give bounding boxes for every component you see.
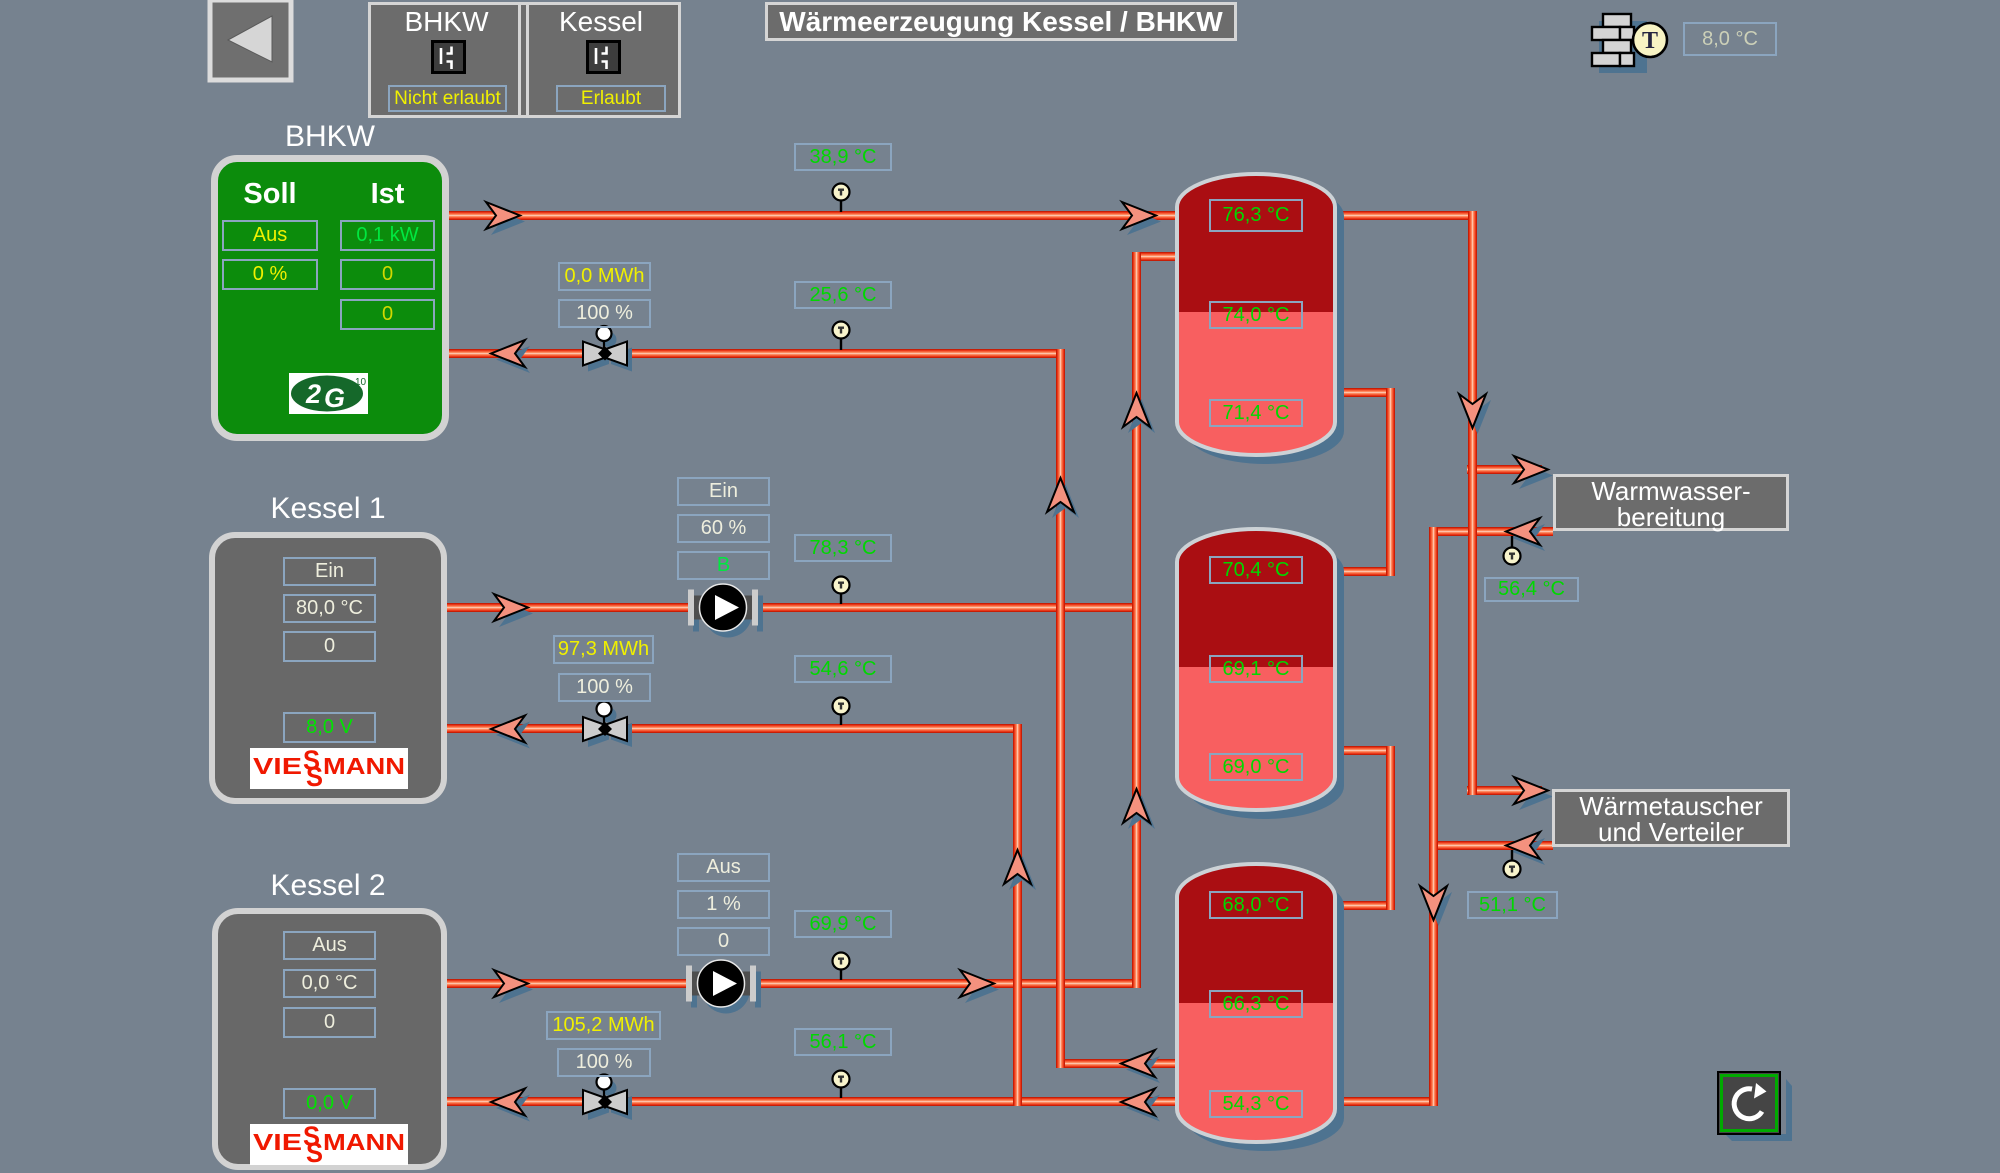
panel Kessel 1 box bbox=[209, 532, 447, 804]
label BHKW unit bbox=[211, 120, 449, 154]
display tank3 temp 68,0 bbox=[1209, 891, 1303, 919]
display pump1 B bbox=[677, 551, 770, 580]
flow arrow Kessel1 supply bbox=[494, 594, 533, 627]
sensor Warmwasser return bbox=[1504, 536, 1521, 565]
wire tank3 bottom right return entry bbox=[1327, 1097, 1438, 1106]
wire tank2-tank3 vertical link bbox=[1386, 746, 1395, 910]
display pump1 60 % bbox=[677, 514, 770, 543]
field BHKW Ist row2 bbox=[340, 259, 435, 290]
title bar bbox=[765, 2, 1237, 41]
flow arrow Kessel2 supply right bbox=[960, 970, 999, 1003]
wire tank1-tank2 link lower bbox=[1327, 567, 1395, 576]
display temp 38,9 bbox=[794, 143, 892, 171]
field Kessel2 row3 bbox=[283, 1007, 376, 1038]
display temp 54,6 bbox=[794, 655, 892, 683]
wire riser stub into tank1 bbox=[1132, 252, 1185, 261]
display tank3 temp 66,3 bbox=[1209, 990, 1303, 1018]
tank 3 storage bbox=[1177, 864, 1344, 1151]
flow arrow kessel riser upper bbox=[1123, 393, 1155, 433]
label Kessel 2 bbox=[209, 869, 447, 903]
flow arrow Warmwasser return left bbox=[1506, 518, 1545, 551]
wire tank1 bottom to tank2 top upper bbox=[1327, 388, 1395, 397]
field BHKW Ist row3 bbox=[340, 299, 435, 330]
flow arrow Kessel1 return bbox=[491, 716, 530, 749]
field Kessel1 setpoint bbox=[283, 594, 376, 623]
wire tank1 outlet to consumers bbox=[1327, 211, 1477, 220]
wire Warmwasser supply stub bbox=[1467, 465, 1542, 474]
wire Kessel2 supply pipe bbox=[447, 979, 1141, 988]
flow arrow to Waermetauscher box bbox=[1514, 777, 1553, 810]
sensor BHKW supply bbox=[833, 184, 850, 213]
wire Waermetauscher return bbox=[1429, 841, 1553, 850]
flow arrow BHKW return bbox=[491, 340, 530, 373]
display pump2 mode Aus bbox=[677, 853, 770, 882]
wire tank1-tank2 vertical link bbox=[1386, 388, 1395, 576]
svg-text:VIE: VIE bbox=[253, 1129, 302, 1155]
flow arrow BHKW return riser up bbox=[1047, 478, 1079, 518]
flow arrow Kessel1 return riser up bbox=[1004, 850, 1036, 890]
field Kessel2 voltage bbox=[283, 1088, 376, 1119]
display Kessel2 valve 100 % bbox=[557, 1048, 651, 1077]
svg-text:S: S bbox=[306, 761, 323, 789]
svg-text:10: 10 bbox=[355, 377, 367, 388]
flow arrow Kessel2 supply left bbox=[494, 970, 533, 1003]
sensor BHKW return bbox=[833, 322, 850, 351]
valve BHKW return bbox=[583, 326, 632, 372]
sensor Waermetauscher return bbox=[1504, 850, 1521, 878]
display pump2 0 bbox=[677, 927, 770, 956]
svg-text:T: T bbox=[1642, 28, 1658, 54]
wire BHKW return pipe horizontal bbox=[449, 349, 1065, 358]
logo VIESSMANN Kessel2 bbox=[250, 1124, 408, 1165]
valve Kessel1 return bbox=[583, 702, 632, 748]
display tank3 temp 54,3 bbox=[1209, 1090, 1303, 1118]
valve Kessel2 return bbox=[583, 1075, 632, 1121]
display BHKW meter 0,0 MWh bbox=[558, 262, 651, 291]
display temp 51,1 bbox=[1467, 891, 1558, 919]
back button bbox=[210, 0, 291, 80]
display temp 69,9 bbox=[794, 910, 892, 938]
icon BHKW switch bbox=[431, 40, 466, 79]
wire consumer return drop vertical bbox=[1429, 527, 1438, 1106]
tank 2 storage bbox=[1177, 529, 1344, 819]
svg-text:MANN: MANN bbox=[323, 1129, 405, 1155]
icon Kessel switch bbox=[586, 40, 621, 79]
svg-text:G: G bbox=[324, 383, 345, 413]
wire kessel riser to tank1 vertical bbox=[1132, 252, 1141, 988]
wire tank2 bottom link upper bbox=[1327, 746, 1395, 755]
svg-text:S: S bbox=[306, 1137, 323, 1165]
field Kessel2 setpoint bbox=[283, 969, 376, 998]
wire Kessel1 return riser vertical bbox=[1013, 724, 1022, 1106]
flow arrow BHKW supply left bbox=[486, 202, 525, 235]
panel Warmwasserbereitung bbox=[1553, 474, 1789, 531]
display tank2 temp 69,0 bbox=[1209, 753, 1303, 781]
pump Kessel2 supply bbox=[686, 960, 761, 1014]
display outdoor temperature bbox=[1683, 22, 1777, 56]
logo 2G bbox=[289, 373, 368, 414]
logo VIESSMANN Kessel1 bbox=[250, 748, 408, 789]
wire Kessel2 return pipe horizontal bbox=[447, 1097, 1185, 1106]
wire BHKW return outlet from tank3 bbox=[1056, 1059, 1185, 1068]
flow arrow consumer supply down bbox=[1459, 394, 1491, 434]
svg-text:MANN: MANN bbox=[323, 753, 405, 779]
display temp 25,6 bbox=[794, 281, 892, 309]
field Kessel2 mode bbox=[283, 931, 376, 960]
display tank1 temp 71,4 bbox=[1209, 399, 1303, 427]
pump Kessel1 supply bbox=[688, 584, 763, 638]
panel BHKW unit green box bbox=[211, 155, 449, 441]
field Kessel1 voltage bbox=[283, 712, 376, 743]
sensor Kessel1 return bbox=[833, 698, 850, 726]
tank 1 storage bbox=[1177, 174, 1344, 464]
flow arrow Waermetauscher return left bbox=[1506, 832, 1545, 865]
wire consumer supply drop vertical bbox=[1468, 211, 1477, 795]
flow arrow Kessel2 return bbox=[491, 1089, 530, 1122]
svg-text:2: 2 bbox=[305, 379, 321, 409]
icon outdoor wall bricks bbox=[1592, 14, 1647, 73]
status field BHKW Nicht erlaubt bbox=[388, 85, 507, 112]
label Kessel button title bbox=[526, 6, 676, 38]
display BHKW valve 100 % bbox=[558, 299, 651, 328]
sensor Kessel2 supply bbox=[833, 953, 850, 981]
display tank2 temp 70,4 bbox=[1209, 556, 1303, 584]
sensor Kessel1 supply bbox=[833, 577, 850, 605]
label Soll bbox=[222, 178, 318, 211]
label Kessel 1 bbox=[209, 492, 447, 526]
wire Kessel1 supply pipe bbox=[447, 603, 1141, 612]
display tank1 temp 76,3 bbox=[1209, 199, 1303, 232]
flow arrow to Warmwasser box bbox=[1514, 456, 1553, 489]
field BHKW Soll mode bbox=[222, 220, 318, 251]
panel Waermetauscher und Verteiler bbox=[1552, 789, 1790, 847]
display temp 56,4 bbox=[1484, 577, 1579, 602]
wire Warmwasser return bbox=[1429, 527, 1553, 536]
display Kessel1 meter 97,3 MWh bbox=[553, 635, 654, 664]
panel mode buttons BHKW/Kessel group bbox=[368, 2, 681, 118]
field BHKW Soll percent bbox=[222, 259, 318, 290]
svg-text:VIE: VIE bbox=[253, 753, 302, 779]
status field Kessel Erlaubt bbox=[556, 85, 666, 112]
flow arrow tank3 outlet lower bbox=[1121, 1089, 1160, 1122]
flow arrow BHKW supply at tank1 bbox=[1122, 202, 1161, 235]
wire Kessel1 return pipe horizontal bbox=[447, 724, 1022, 733]
label Ist bbox=[340, 178, 435, 211]
display temp 78,3 bbox=[794, 534, 892, 562]
panel Kessel 2 box bbox=[212, 908, 447, 1170]
wire BHKW return riser vertical bbox=[1056, 349, 1065, 1068]
display Kessel1 valve 100 % bbox=[558, 673, 651, 702]
field BHKW Ist power bbox=[340, 220, 435, 251]
wire Waermetauscher supply stub bbox=[1467, 786, 1542, 795]
label BHKW button title bbox=[372, 6, 521, 38]
wire BHKW supply pipe bbox=[449, 211, 1185, 220]
flow arrow kessel riser lower bbox=[1123, 789, 1155, 829]
button refresh bbox=[1718, 1072, 1792, 1141]
display Kessel2 meter 105,2 MWh bbox=[546, 1011, 661, 1040]
display pump2 1 % bbox=[677, 890, 770, 919]
display tank1 temp 74,0 bbox=[1209, 301, 1303, 329]
display temp 56,1 bbox=[794, 1028, 892, 1056]
display tank2 temp 69,1 bbox=[1209, 655, 1303, 683]
field Kessel1 mode bbox=[283, 557, 376, 586]
icon outdoor temperature T bbox=[1633, 23, 1667, 57]
display pump1 mode Ein bbox=[677, 477, 770, 506]
field Kessel1 row3 bbox=[283, 631, 376, 662]
flow arrow consumer return down bbox=[1420, 886, 1452, 926]
wire tank2-tank3 link lower bbox=[1327, 901, 1395, 910]
flow arrow tank3 outlet upper bbox=[1121, 1050, 1160, 1083]
sensor Kessel2 return bbox=[833, 1071, 850, 1099]
